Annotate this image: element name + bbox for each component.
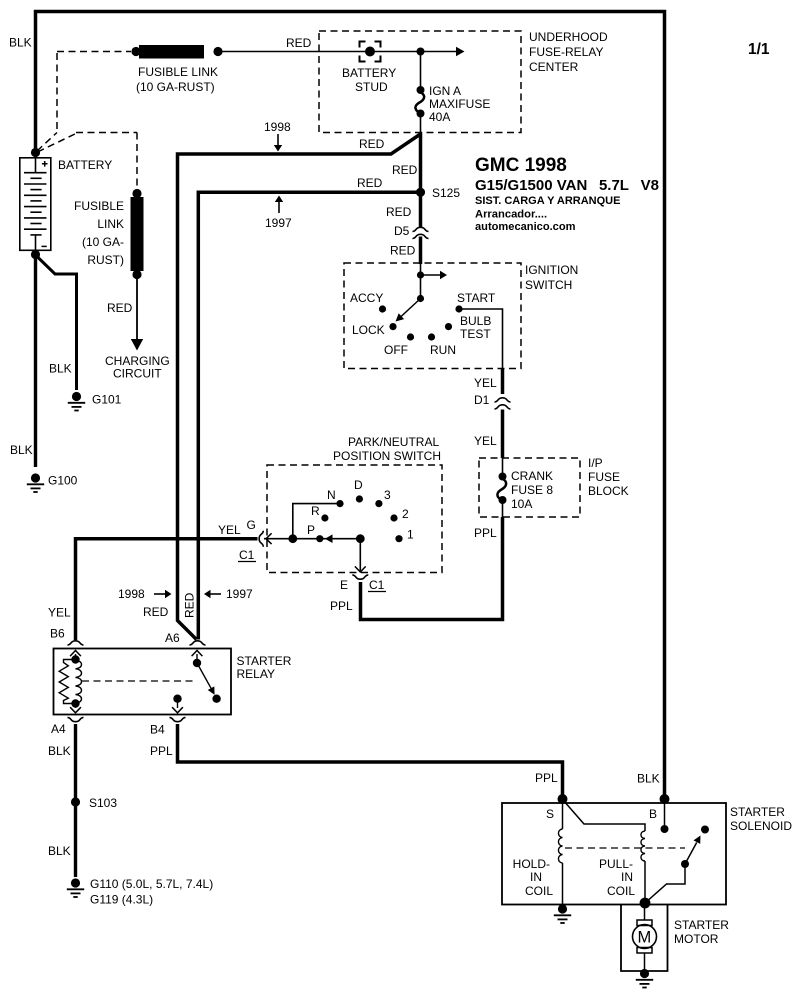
svg-text:BLK: BLK [637,772,660,786]
wire YEL from ignition to D1 [501,369,505,395]
svg-text:PPL: PPL [150,744,173,758]
svg-text:PPL: PPL [330,599,353,613]
svg-text:IGN A: IGN A [429,84,461,98]
svg-text:COIL: COIL [525,884,553,898]
contact RUN [428,333,435,340]
svg-text:COIL: COIL [607,884,635,898]
wire BLK main bus: battery positive up, across top, down right side to solenoid B [36,12,665,799]
node terminal S [558,794,568,804]
dashed box I/P FUSE BLOCK [479,458,580,517]
svg-text:RED: RED [359,137,385,151]
ground under starter motor [636,969,653,988]
svg-text:G: G [247,518,256,532]
svg-text:2: 2 [402,507,409,521]
starter relay box [54,649,232,715]
svg-text:G101: G101 [92,393,122,407]
svg-text:START: START [457,291,496,305]
svg-text:FUSE 8: FUSE 8 [511,483,553,497]
solenoid moving contact dot [701,826,709,834]
contact 3 [375,500,382,507]
svg-text:BATTERY: BATTERY [342,66,396,80]
solenoid S diagonal to pull-in coil [563,800,645,831]
svg-text:HOLD-: HOLD- [513,857,550,871]
svg-text:OFF: OFF [384,343,408,357]
fuse CRANK FUSE 8 10A [502,458,504,473]
svg-text:S: S [546,807,554,821]
battery minus sign [42,245,47,247]
svg-text:PARK/NEUTRAL: PARK/NEUTRAL [348,435,439,449]
svg-text:RED: RED [107,301,133,315]
svg-text:FUSE-RELAY: FUSE-RELAY [529,45,603,59]
node battery positive terminal [31,148,40,157]
svg-text:STUD: STUD [355,80,388,94]
svg-text:RELAY: RELAY [237,667,275,681]
svg-text:BLK: BLK [48,744,71,758]
svg-text:CIRCUIT: CIRCUIT [113,367,162,381]
wire RED 1997 feed (lower horizontal) [198,192,420,639]
svg-text:IN: IN [530,870,542,884]
arrow feed to fuse-relay center [456,47,465,56]
starter solenoid box [502,803,726,905]
svg-text:1997: 1997 [265,216,292,230]
solenoid dashed actuator line [565,847,685,849]
svg-text:BLK: BLK [9,36,32,50]
solenoid B internal stub [664,801,666,825]
svg-text:N: N [327,488,336,502]
starter motor box [621,905,668,972]
svg-text:YEL: YEL [474,434,497,448]
svg-text:RED: RED [392,163,418,177]
dashed link from battery positive to fusible links [37,52,137,191]
svg-text:GMC 1998: GMC 1998 [475,155,567,176]
svg-text:STARTER: STARTER [237,654,292,668]
svg-text:RED: RED [386,205,412,219]
svg-text:FUSIBLE LINK: FUSIBLE LINK [138,65,218,79]
svg-text:YEL: YEL [218,523,241,537]
svg-text:1/1: 1/1 [748,41,770,58]
svg-text:RED: RED [286,36,312,50]
svg-text:BLK: BLK [48,844,71,858]
contact N [336,500,343,507]
svg-text:BULB: BULB [460,314,491,328]
svg-text:1998: 1998 [264,120,291,134]
svg-text:STARTER: STARTER [674,918,729,932]
svg-text:RED: RED [390,244,416,258]
contact ACCY [379,305,386,312]
svg-text:BATTERY: BATTERY [58,158,112,172]
svg-text:SWITCH: SWITCH [525,278,572,292]
svg-text:M: M [638,929,652,947]
svg-text:STARTER: STARTER [730,805,785,819]
wire RED from fusible link to battery stud [218,51,366,53]
svg-text:PPL: PPL [474,526,497,540]
wire RED trunk from maxifuse down to ignition switch [419,132,423,227]
wire YEL from G to starter relay B6 [76,539,258,640]
relay switch arm with arrow [197,663,211,688]
svg-text:C1: C1 [239,548,255,562]
ground under hold-in coil [554,904,571,923]
node battery negative terminal [31,250,40,259]
wire stud to junction with arrow [375,51,456,53]
node terminal B [660,794,670,804]
svg-text:YEL: YEL [474,376,497,390]
node solenoid to motor junction [640,898,651,909]
svg-text:RED: RED [183,592,197,618]
wire PPL from crank fuse down and left to P/N switch E [361,517,503,620]
svg-text:RED: RED [143,605,169,619]
relay switch pivot [193,659,201,667]
svg-text:G15/G1500 VAN 5.7L V8: G15/G1500 VAN 5.7L V8 [475,177,659,194]
contact R [321,514,328,521]
arrow to accessory circuits [421,274,441,276]
svg-text:YEL: YEL [48,606,71,620]
wire PPL from B4 to solenoid S [178,724,563,798]
svg-text:FUSIBLE: FUSIBLE [74,199,124,213]
node S125 splice [416,188,425,197]
svg-text:CENTER: CENTER [529,60,579,74]
wire N elbow to main line [293,504,340,539]
svg-text:BLOCK: BLOCK [588,484,629,498]
arrow on P/N line pointing left [325,534,333,543]
connector A6 [190,641,206,645]
node junction above maxifuse [417,48,425,56]
connector D1 [495,398,511,402]
node ignition feed [417,271,424,278]
wire BLK battery negative to G100 [34,255,37,468]
ignition switch internals [420,264,422,299]
wire P/N main line [264,538,360,540]
relay coil feed arrow (B6) [75,654,77,660]
connector B4 [170,718,186,722]
solenoid hold-in coil [558,829,562,863]
connector C1 terminal E [352,575,368,579]
wire BLK from A4 to S103 [74,724,77,877]
svg-text:1: 1 [407,528,414,542]
connector B6 [68,641,84,645]
svg-text:1998: 1998 [118,587,145,601]
svg-text:SIST. CARGA Y ARRANQUE: SIST. CARGA Y ARRANQUE [475,195,620,207]
contact 2 [390,514,397,521]
dashed box UNDERHOOD FUSE-RELAY CENTER [319,31,521,133]
battery B1 [20,158,51,251]
connector C1 terminal G [259,531,263,547]
node junction on P/N line [288,534,297,543]
battery stud terminal [365,47,375,57]
svg-text:TEST: TEST [460,327,491,341]
svg-text:40A: 40A [429,110,450,124]
svg-text:Arrancador....: Arrancador.... [475,209,547,221]
label 1997 with left arrow [204,590,211,598]
svg-text:PULL-: PULL- [599,857,633,871]
svg-text:LOCK: LOCK [352,323,385,337]
svg-text:D5: D5 [394,224,410,238]
svg-text:S125: S125 [432,186,460,200]
svg-text:G100: G100 [48,474,78,488]
solenoid pull-in coil [641,831,645,861]
wire START output inside switch [459,309,503,369]
ground G101 [68,392,85,411]
fusible link F2 (10 GA-RUST) vertical [132,189,141,198]
wire exit to E with arrow [359,539,361,571]
svg-text:BLK: BLK [49,362,72,376]
svg-text:I/P: I/P [588,456,603,470]
contact P [316,535,323,542]
contact OFF [407,333,414,340]
ground G100 [27,473,44,492]
contact 1 [395,535,402,542]
svg-text:B: B [649,807,657,821]
svg-text:UNDERHOOD: UNDERHOOD [529,30,608,44]
arrow to charging circuit [131,339,143,351]
motor M1 [644,903,646,920]
svg-text:POSITION SWITCH: POSITION SWITCH [333,449,441,463]
node junction below D [356,534,365,543]
relay coil ground arrow (A4) [75,704,77,709]
relay terminal B4 stub [173,695,181,703]
svg-text:10A: 10A [511,497,532,511]
solenoid S internal wire to hold-in coil [562,799,564,829]
svg-text:(10 GA-: (10 GA- [82,235,124,249]
dashed box IGNITION SWITCH [344,263,521,369]
relay dashed actuator line [82,680,195,682]
svg-text:IGNITION: IGNITION [525,263,578,277]
node ignition rotor pivot [417,295,424,302]
svg-text:LINK: LINK [97,217,124,231]
connector D5 [413,227,429,231]
battery plus sign [42,161,48,167]
svg-text:3: 3 [384,488,391,502]
svg-text:RED: RED [357,176,383,190]
svg-text:MAXIFUSE: MAXIFUSE [429,97,490,111]
wire YEL from D1 to crank fuse [501,410,505,459]
svg-text:MOTOR: MOTOR [674,932,719,946]
fusible link F1 (10 GA-RUST) horizontal [131,47,140,56]
svg-text:A4: A4 [51,722,66,736]
svg-text:P: P [307,523,315,537]
solenoid switch arm [645,864,685,903]
svg-text:CRANK: CRANK [511,469,553,483]
svg-text:automecanico.com: automecanico.com [475,221,576,233]
svg-text:G119 (4.3L): G119 (4.3L) [90,893,153,907]
contact BULB TEST [445,323,452,330]
svg-text:E: E [340,578,348,592]
relay contact (lower right) [212,695,220,703]
svg-text:RUN: RUN [430,343,456,357]
svg-text:1997: 1997 [226,587,253,601]
contact LOCK [389,323,396,330]
wire BLK battery negative branch to G101 [37,256,77,390]
ignition rotor arm arrow to LOCK [401,299,420,317]
svg-text:RUST): RUST) [87,253,124,267]
relay switch feed arrow (A6) [196,654,198,663]
contact START [455,305,462,312]
svg-text:D1: D1 [474,393,490,407]
ground G110/G119 [67,878,84,897]
contact D [356,495,363,502]
dashed box PARK/NEUTRAL POSITION SWITCH [267,465,442,573]
svg-text:SOLENOID: SOLENOID [730,819,792,833]
relay coil with resistor [71,655,79,663]
svg-text:D: D [354,478,363,492]
svg-text:G110 (5.0L, 5.7L, 7.4L): G110 (5.0L, 5.7L, 7.4L) [90,877,213,891]
svg-text:A6: A6 [165,631,180,645]
svg-text:R: R [311,504,320,518]
svg-text:FUSE: FUSE [588,470,620,484]
maxifuse IGN A 40A [420,52,422,88]
svg-text:B4: B4 [150,723,165,737]
wire RED to charging circuit [136,275,138,341]
svg-text:B6: B6 [50,627,65,641]
svg-text:ACCY: ACCY [350,291,383,305]
node S103 splice [71,797,80,806]
svg-text:S103: S103 [89,796,117,810]
svg-text:(10 GA-RUST): (10 GA-RUST) [136,80,215,94]
svg-text:PPL: PPL [535,771,558,785]
svg-text:IN: IN [621,870,633,884]
svg-text:C1: C1 [369,578,385,592]
wire RED 1998 feed (upper horizontal) [178,134,421,640]
connector A4 [68,718,84,722]
svg-text:BLK: BLK [10,443,33,457]
